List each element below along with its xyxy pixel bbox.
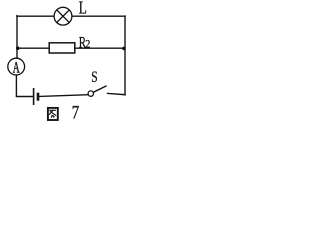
svg-text:S: S	[91, 69, 97, 86]
svg-text:7: 7	[72, 102, 80, 123]
svg-text:2: 2	[85, 38, 90, 51]
svg-text:A: A	[13, 59, 20, 76]
svg-text:L: L	[79, 0, 87, 18]
